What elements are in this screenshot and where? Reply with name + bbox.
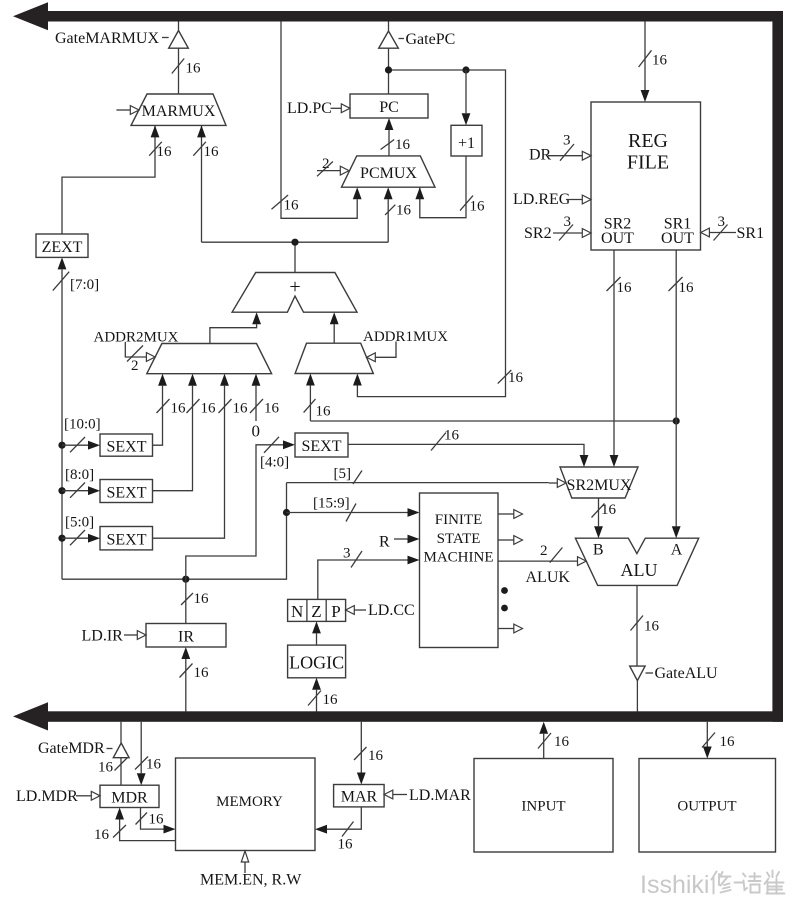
- svg-text:DR: DR: [529, 147, 552, 164]
- FSM output stub 2: [498, 536, 523, 545]
- svg-text:P: P: [331, 602, 340, 621]
- bus middle left arrowhead: [13, 702, 48, 730]
- FSM ellipsis dots: [501, 587, 508, 611]
- svg-text:[10:0]: [10:0]: [64, 417, 101, 433]
- svg-text:R: R: [379, 534, 390, 551]
- control DR: [529, 133, 591, 164]
- svg-text:LD.PC: LD.PC: [287, 100, 332, 117]
- memory MEMORY: [176, 758, 316, 851]
- svg-text:3: 3: [563, 133, 571, 149]
- bus right bar: [772, 11, 783, 722]
- wire bus to MDR input: [135, 722, 162, 785]
- svg-text:ZEXT: ZEXT: [42, 239, 83, 256]
- label ADDR2MUX with select 2: [94, 330, 179, 375]
- svg-text:Z: Z: [311, 602, 321, 621]
- control LD.REG: [513, 191, 591, 208]
- wire IR to distribution line: [181, 579, 209, 623]
- control ALUK from FSM: [498, 543, 586, 586]
- svg-text:16: 16: [652, 53, 668, 69]
- svg-text:ADDR2MUX: ADDR2MUX: [94, 330, 179, 346]
- WATERMARK: [640, 871, 785, 900]
- control SR1: [701, 214, 764, 242]
- svg-text:INPUT: INPUT: [521, 799, 565, 815]
- svg-text:SEXT: SEXT: [107, 485, 147, 502]
- svg-text:MEM.EN, R.W: MEM.EN, R.W: [200, 872, 302, 889]
- control LD.PC: [287, 100, 350, 117]
- wire ZEXT input IR[7:0]: [53, 257, 99, 579]
- wire IR[5] to SR2MUX select: [287, 466, 567, 487]
- label 4:0: [260, 455, 289, 471]
- svg-text:LOGIC: LOGIC: [289, 653, 344, 673]
- device OUTPUT: [639, 759, 776, 853]
- wire SEXT[4:0] output to SR2MUX: [348, 428, 588, 468]
- svg-text:MDR: MDR: [111, 790, 148, 807]
- svg-text:FINITE: FINITE: [435, 512, 483, 528]
- wire IR output distribution line: [62, 483, 290, 583]
- svg-text:SEXT: SEXT: [107, 532, 147, 549]
- svg-text:16: 16: [554, 734, 570, 750]
- svg-text:16: 16: [284, 198, 300, 214]
- svg-text:16: 16: [316, 404, 332, 420]
- svg-text:[8:0]: [8:0]: [65, 467, 94, 483]
- wire ADDR2MUX input4 constant 0: [250, 374, 280, 441]
- svg-text:LD.IR: LD.IR: [82, 628, 124, 645]
- svg-text:A: A: [671, 542, 683, 559]
- register ZEXT: [36, 234, 88, 257]
- wire MDR to MEMORY write path: [136, 808, 176, 834]
- svg-text:PC: PC: [379, 99, 399, 116]
- wire ADDR1MUX left input from SR1OUT rail: [304, 374, 680, 425]
- svg-text:LD.MDR: LD.MDR: [16, 788, 78, 805]
- label GatePC: [406, 31, 456, 48]
- wire INPUT to bus: [538, 722, 570, 759]
- svg-text:16: 16: [204, 144, 220, 160]
- wire ADDR2MUX output to adder: [210, 312, 261, 343]
- svg-text:16: 16: [146, 757, 162, 773]
- wire IR[15:9] to FSM: [287, 496, 420, 522]
- svg-text:GateALU: GateALU: [655, 665, 719, 682]
- svg-text:16: 16: [720, 734, 736, 750]
- svg-text:16: 16: [323, 692, 339, 708]
- svg-text:MACHINE: MACHINE: [424, 550, 494, 566]
- svg-text:16: 16: [508, 370, 524, 386]
- gate GateMDR: [98, 722, 129, 785]
- svg-text:SEXT: SEXT: [107, 439, 147, 456]
- register file REGFILE: [591, 102, 701, 250]
- wire NZP to FSM 3: [318, 546, 420, 600]
- svg-text:PCMUX: PCMUX: [360, 165, 417, 182]
- wire bus to MAR input: [354, 722, 384, 785]
- svg-text:LD.MAR: LD.MAR: [409, 787, 471, 804]
- wire MARMUX left input from ZEXT: [62, 125, 172, 234]
- svg-text:SR2MUX: SR2MUX: [567, 477, 632, 494]
- svg-text:OUT: OUT: [661, 230, 694, 247]
- wire MAR to MEMORY address: [315, 807, 361, 853]
- BUS: [13, 2, 783, 730]
- bus top left arrowhead: [13, 2, 48, 30]
- control LD.CC: [346, 602, 415, 619]
- condition codes NZP: [288, 599, 346, 621]
- FSM output stub 3: [498, 624, 523, 633]
- wire ALU output to GateALU: [631, 585, 660, 666]
- svg-text:ADDR1MUX: ADDR1MUX: [363, 329, 448, 345]
- svg-text:2: 2: [322, 156, 330, 172]
- svg-text:LD.REG: LD.REG: [513, 191, 571, 208]
- svg-text:N: N: [291, 602, 303, 621]
- svg-text:[5:0]: [5:0]: [65, 515, 94, 531]
- wire ADDR2MUX input1 from SEXT[10:0]: [153, 374, 187, 446]
- svg-text:OUT: OUT: [601, 230, 634, 247]
- control LD.IR: [82, 628, 147, 645]
- mux MARMUX: [131, 94, 226, 125]
- register MDR: [100, 785, 159, 807]
- svg-text:16: 16: [186, 61, 202, 77]
- svg-text:ALU: ALU: [621, 560, 658, 580]
- svg-text:16: 16: [644, 619, 660, 635]
- svg-text:16: 16: [171, 401, 187, 417]
- svg-text:16: 16: [617, 280, 633, 296]
- svg-text:+1: +1: [458, 135, 475, 152]
- svg-text:GatePC: GatePC: [406, 31, 456, 48]
- svg-text:[4:0]: [4:0]: [260, 455, 289, 471]
- svg-text:2: 2: [540, 543, 548, 559]
- label GateMDR: [38, 740, 105, 757]
- PCMUX select 2: [317, 156, 349, 176]
- wire ADDR1MUX output to adder: [330, 312, 339, 343]
- control MEM.EN RW: [200, 851, 302, 889]
- label GateMARMUX: [55, 30, 201, 77]
- wire adder output distribution: [202, 187, 412, 272]
- wire bus drop to PCMUX left input: [272, 22, 362, 219]
- svg-text:16: 16: [395, 137, 411, 153]
- wire bus to IR input: [180, 647, 210, 712]
- svg-text:MARMUX: MARMUX: [142, 103, 216, 120]
- svg-text:16: 16: [679, 280, 695, 296]
- wire ADDR2MUX input2 from SEXT[8:0]: [153, 374, 217, 491]
- svg-text:16: 16: [194, 665, 210, 681]
- sign extender SEXT 4:0: [295, 433, 348, 457]
- svg-text:GateMDR: GateMDR: [38, 740, 105, 757]
- svg-text:16: 16: [470, 199, 486, 215]
- wire LOGIC to NZP: [312, 621, 321, 645]
- svg-text:LD.CC: LD.CC: [368, 602, 415, 619]
- svg-text:Isshiki: Isshiki: [640, 871, 709, 899]
- svg-text:FILE: FILE: [627, 152, 669, 174]
- svg-text:16: 16: [201, 401, 217, 417]
- device INPUT: [474, 759, 613, 853]
- svg-text:16: 16: [233, 401, 249, 417]
- wire SR2MUX output to ALU input B: [592, 498, 617, 538]
- svg-text:16: 16: [98, 760, 114, 776]
- svg-text:MEMORY: MEMORY: [216, 794, 283, 810]
- box +1 incrementer: [451, 70, 482, 156]
- svg-text:+: +: [289, 276, 300, 298]
- svg-text:[5]: [5]: [334, 466, 352, 482]
- wire bus drop to REG FILE: [639, 22, 668, 103]
- svg-text:GateMARMUX: GateMARMUX: [55, 30, 159, 47]
- svg-text:[15:9]: [15:9]: [313, 496, 350, 512]
- svg-text:ALUK: ALUK: [526, 569, 571, 586]
- svg-text:SR2: SR2: [524, 225, 552, 242]
- svg-text:16: 16: [338, 837, 354, 853]
- svg-text:16: 16: [194, 591, 210, 607]
- svg-text:B: B: [593, 542, 604, 559]
- instruction register IR: [146, 624, 226, 648]
- svg-text:STATE: STATE: [437, 531, 481, 547]
- svg-text:OUTPUT: OUTPUT: [677, 799, 736, 815]
- gate GatePC: [379, 22, 404, 95]
- wire IR[4:0] branch to SEXT: [186, 437, 295, 579]
- sign extender SEXT 8:0: [58, 467, 152, 503]
- svg-text:3: 3: [343, 546, 351, 562]
- label ADDR1MUX with select stub: [363, 329, 448, 362]
- control SR2: [524, 214, 591, 242]
- sign extender SEXT 5:0: [58, 515, 152, 550]
- MARMUX select stub: [116, 106, 139, 115]
- svg-text:IR: IR: [178, 629, 194, 646]
- wire PC top junction to right rail and ADDR1MUX right input: [353, 66, 524, 396]
- mux SR2MUX: [560, 467, 638, 498]
- svg-text:16: 16: [601, 502, 617, 518]
- wire MARMUX right input from adder: [193, 125, 219, 242]
- wire SR1OUT to ALU input A: [669, 250, 695, 538]
- mux PCMUX: [342, 156, 436, 187]
- sign extender SEXT 10:0: [58, 417, 152, 457]
- wire PCMUX output to PC: [381, 118, 411, 156]
- wire bus to OUTPUT: [702, 722, 735, 759]
- bus middle bar: [44, 711, 783, 722]
- mux ADDR1MUX: [295, 343, 373, 373]
- control R input to FSM: [379, 534, 420, 551]
- svg-text:3: 3: [564, 214, 572, 230]
- wire +1 output to PCMUX right input: [415, 156, 485, 218]
- svg-text:3: 3: [718, 214, 726, 230]
- svg-text:16: 16: [264, 401, 280, 417]
- svg-text:16: 16: [149, 812, 165, 828]
- svg-text:16: 16: [94, 827, 110, 843]
- register MAR: [334, 785, 385, 807]
- mux ADDR2MUX: [147, 344, 272, 374]
- svg-text:[7:0]: [7:0]: [70, 277, 99, 293]
- svg-text:16: 16: [157, 144, 173, 160]
- gate GateMARMUX: [162, 22, 188, 95]
- svg-text:REG: REG: [628, 130, 668, 152]
- logic block LOGIC: [288, 645, 346, 678]
- control LD.MDR: [16, 788, 100, 805]
- svg-text:SEXT: SEXT: [302, 438, 342, 455]
- svg-text:2: 2: [131, 358, 139, 374]
- svg-text:0: 0: [252, 422, 261, 441]
- control LD.MAR: [384, 787, 471, 804]
- wire ADDR2MUX input3 from SEXT[5:0]: [153, 374, 249, 539]
- alu ALU: [575, 538, 698, 585]
- register PC: [350, 94, 428, 118]
- svg-text:16: 16: [444, 428, 460, 444]
- adder PLUS: [232, 273, 357, 313]
- gate GateALU: [630, 665, 718, 712]
- bus top bar: [44, 11, 783, 22]
- svg-text:16: 16: [396, 203, 412, 219]
- wire SR2OUT to SR2MUX: [607, 250, 633, 467]
- wire bus to LOGIC: [308, 678, 338, 712]
- svg-text:16: 16: [368, 748, 384, 764]
- svg-text:MAR: MAR: [341, 789, 378, 806]
- state machine FSM: [420, 493, 499, 648]
- wire MEMORY to MDR read path: [94, 808, 176, 844]
- svg-text:SR1: SR1: [737, 225, 765, 242]
- FSM output stub 1: [498, 510, 523, 519]
